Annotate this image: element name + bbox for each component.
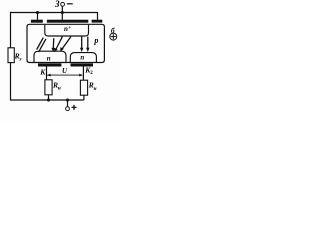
svg-text:p: p xyxy=(93,36,98,45)
current flow line 2 xyxy=(39,39,46,52)
current flow arrow 7 xyxy=(87,37,89,50)
right n pocket outline xyxy=(70,53,96,63)
label minus polarity at gate xyxy=(67,3,73,4)
current flow arrow 3 xyxy=(52,38,55,49)
resistor Rn left load xyxy=(45,80,52,95)
arrowhead flow 3 xyxy=(51,48,55,52)
n+ region pocket outline xyxy=(45,25,89,36)
svg-text:+: + xyxy=(68,26,71,31)
left n pocket outline xyxy=(34,51,66,62)
wire from left load resistor to bottom bus xyxy=(48,95,50,100)
wire bottom horizontal bus xyxy=(10,99,84,101)
electrode metallization top left xyxy=(31,20,43,23)
electrode metallization top right xyxy=(92,20,103,23)
arrowhead flow 4 xyxy=(54,48,58,53)
svg-text:н: н xyxy=(58,86,61,92)
node junction dot top bus / left electrode wire xyxy=(36,11,39,14)
wire left vertical from top bus to resistor R3 xyxy=(10,12,12,48)
wire from right load resistor to bottom bus xyxy=(83,95,85,100)
wire top horizontal gate bus xyxy=(10,12,98,14)
voltage U measurement double arrow between K1 and K2 wires xyxy=(49,74,82,76)
plus-in-circle polarity symbol at p region xyxy=(110,33,117,40)
arrowhead flow 7 xyxy=(86,48,89,52)
resistor Rn right load xyxy=(80,80,87,95)
arrowhead flow 5 xyxy=(60,47,64,52)
svg-text:n: n xyxy=(80,54,84,62)
svg-text:n: n xyxy=(47,54,51,62)
electrode metallization top middle over n+ xyxy=(47,20,88,23)
svg-text:н: н xyxy=(94,86,97,92)
wire right drop from top bus to right electrode xyxy=(97,12,99,20)
arrowhead flow 6 xyxy=(80,48,83,52)
electrode metallization bottom left cathode K1 xyxy=(38,63,61,66)
node junction dot bottom bus / left load resistor xyxy=(47,98,50,101)
node junction dot top bus / gate stub xyxy=(61,11,64,14)
wire K1 from left bottom electrode to left load resistor xyxy=(46,66,48,80)
current flow arrow 6 xyxy=(81,37,83,50)
wire left vertical from resistor R3 to bottom bus xyxy=(10,63,12,101)
semiconductor body outline xyxy=(27,24,104,62)
label plus polarity at bottom terminal xyxy=(72,105,77,110)
wire plus-terminal stub xyxy=(67,100,69,107)
resistor R3 gate resistor xyxy=(8,48,14,63)
current flow arrow 5 xyxy=(62,37,71,50)
node junction dot bottom bus / plus terminal xyxy=(66,98,69,101)
terminal circle of gate З xyxy=(61,2,65,6)
svg-text:З: З xyxy=(54,0,60,9)
wire gate stub from terminal circle through bus to middle electrode xyxy=(61,6,63,20)
current flow line 1 xyxy=(37,38,44,50)
wire K2 from right bottom electrode to right load resistor xyxy=(82,66,84,80)
wire drop from top bus to left electrode xyxy=(37,12,39,20)
electrode metallization bottom right cathode K2 xyxy=(71,63,94,66)
current flow arrow 4 xyxy=(56,37,63,50)
terminal circle plus output xyxy=(66,107,70,111)
